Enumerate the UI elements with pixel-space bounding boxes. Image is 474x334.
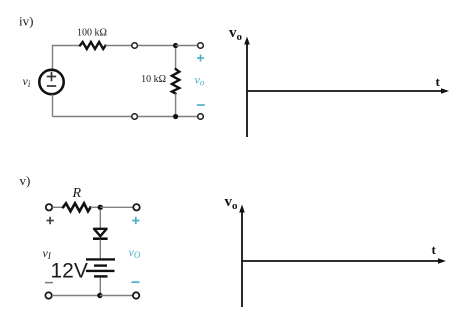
label vo circuit iv [195, 73, 205, 88]
terminal (open circle) bottom right circuit v [133, 292, 139, 298]
wire resistor to top terminal [106, 45, 132, 47]
value label 100 kOhm [77, 27, 107, 38]
graph 2 vertical axis [239, 205, 245, 308]
svg-text:12V: 12V [51, 260, 88, 283]
minus sign output circuit v [132, 281, 140, 283]
svg-text:v): v) [20, 173, 31, 188]
svg-text:iv): iv) [19, 14, 33, 29]
node A junction dot top [173, 43, 178, 48]
svg-text:10 kΩ: 10 kΩ [141, 74, 166, 85]
minus sign input circuit v [45, 282, 53, 284]
battery B1 12V [86, 259, 115, 276]
node D junction dot bottom [97, 293, 102, 298]
voltage source V1 [39, 70, 63, 94]
svg-text:100 kΩ: 100 kΩ [77, 27, 107, 38]
wire node C to diode D1 [99, 210, 101, 229]
wire battery to bottom rail [99, 278, 101, 296]
wire bottom rail circuit v right [100, 295, 133, 297]
svg-text:vO: vO [129, 245, 141, 260]
terminal (open circle) top middle [132, 43, 138, 49]
plus sign input circuit v [47, 217, 54, 224]
wire resistor R to node C [91, 206, 101, 208]
wire source to bottom rail [52, 95, 54, 117]
wire node C to right terminal [100, 206, 133, 208]
terminal (open circle) bottom middle [132, 114, 138, 120]
minus sign output circuit iv [197, 104, 205, 106]
graph 1 horizontal axis [247, 88, 449, 94]
graph 2 label t [432, 242, 437, 257]
graph 1 label t [436, 74, 441, 89]
svg-text:t: t [436, 74, 441, 89]
svg-text:vo: vo [225, 194, 239, 212]
terminal (open circle) top left circuit v [46, 204, 52, 210]
plus sign output circuit v [132, 217, 139, 224]
terminal (open circle) bottom left circuit v [45, 292, 51, 298]
label v) [20, 173, 31, 188]
resistor R1 100 kOhm [80, 42, 106, 49]
svg-text:vo: vo [195, 73, 205, 88]
value label 10 kOhm [141, 74, 166, 85]
label vi [23, 74, 31, 89]
resistor R2 10 kOhm [172, 69, 179, 94]
wire top-left segment circuit iv [53, 46, 81, 70]
graph 2 label vo [225, 194, 239, 212]
value label 12V [51, 260, 88, 283]
svg-text:t: t [432, 242, 437, 257]
label iv) [19, 14, 33, 29]
resistor R [63, 203, 91, 211]
node B junction dot bottom [173, 114, 178, 119]
wire bottom rail left [53, 116, 132, 118]
graph 1 vertical axis [244, 37, 250, 138]
wire node A to right terminal [176, 45, 198, 47]
terminal (open circle) top right circuit v [133, 204, 139, 210]
label vI [43, 246, 52, 261]
terminal (open circle) bottom right [198, 114, 204, 120]
wire node A to resistor R2 [175, 48, 177, 69]
svg-text:R: R [72, 186, 82, 201]
svg-text:vi: vi [23, 74, 31, 89]
node C junction dot [98, 205, 103, 210]
svg-text:vo: vo [229, 25, 243, 43]
plus sign output circuit iv [197, 55, 204, 62]
wire bottom rail right [138, 116, 198, 118]
wire terminal to node A [138, 45, 176, 47]
graph 1 label vo [229, 25, 243, 43]
label vO [129, 245, 141, 260]
diode D1 [93, 229, 108, 239]
wire bottom rail circuit v left [52, 295, 100, 297]
terminal (open circle) top right [198, 43, 204, 49]
graph 2 horizontal axis [242, 258, 446, 264]
value label R [72, 186, 82, 201]
wire resistor R2 to node B [175, 94, 177, 114]
wire diode D1 to battery [99, 240, 101, 259]
wire left terminal to resistor R [52, 206, 63, 208]
